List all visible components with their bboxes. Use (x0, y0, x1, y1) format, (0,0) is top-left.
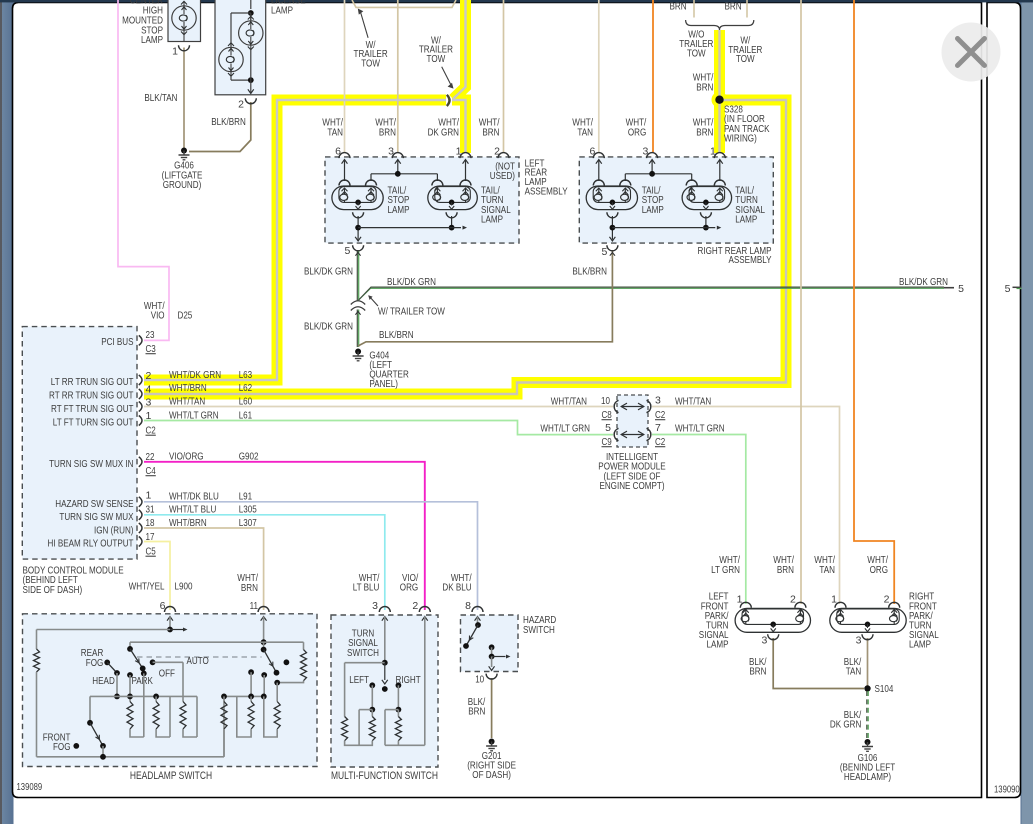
svg-text:5: 5 (344, 245, 350, 257)
svg-text:WHT/YEL: WHT/YEL (129, 580, 165, 592)
CHMSL box (168, 0, 201, 42)
wiper arrow down (384, 663, 386, 680)
pin 3 connector (392, 153, 403, 159)
highlight L63 LT RR TURN SIG wire (yellow) (144, 100, 446, 380)
svg-text:ASSEMBLY: ASSEMBLY (525, 185, 568, 197)
svg-text:WIRING): WIRING) (724, 133, 757, 145)
svg-text:DK GRN: DK GRN (428, 126, 459, 138)
svg-text:TAN: TAN (819, 564, 835, 576)
svg-text:L305: L305 (239, 504, 257, 516)
MFS resistors (371, 710, 373, 717)
svg-text:WHT/LT GRN: WHT/LT GRN (169, 409, 219, 421)
right rear lamp assembly box (579, 157, 773, 243)
ground G201 (489, 739, 495, 745)
svg-text:DK BLU: DK BLU (442, 582, 471, 594)
svg-text:HEADLAMP SWITCH: HEADLAMP SWITCH (130, 770, 212, 782)
lamp CHMSL bulb (172, 6, 196, 30)
svg-text:MULTI-FUNCTION SWITCH: MULTI-FUNCTION SWITCH (331, 770, 438, 782)
pin 1 connector (714, 153, 725, 159)
svg-text:BLK/BRN: BLK/BRN (379, 329, 414, 341)
svg-text:OFF: OFF (159, 668, 175, 680)
feed bus from pin 11 (130, 641, 304, 643)
OFF contact (141, 671, 147, 677)
svg-text:ORG: ORG (870, 564, 888, 576)
svg-text:LAMP: LAMP (481, 214, 503, 226)
page 2 sheet (partial) (987, 3, 1021, 798)
far right resistor (303, 642, 305, 649)
svg-text:3: 3 (856, 634, 862, 646)
svg-text:1: 1 (146, 410, 152, 422)
wire WHT/BRN to left rear lamp pin 3 (397, 0, 399, 152)
LEFT contact (369, 682, 375, 688)
svg-text:ORG: ORG (628, 126, 646, 138)
tie to R1 (345, 662, 385, 664)
wire BLK/DK GRN dashed S104 to G106 (866, 691, 868, 738)
wire WHT/BRN to left rear lamp pin 2 (not used) (503, 0, 505, 152)
svg-text:WHT/BRN: WHT/BRN (169, 517, 207, 529)
svg-text:139089: 139089 (17, 782, 43, 793)
stadium bottom connectors and bus (353, 212, 364, 218)
bus at contacts (117, 695, 170, 697)
pin 5 connector (353, 245, 364, 251)
wire BRN stubs above brace (693, 0, 695, 18)
brace w/o & w/ trailer tow (686, 20, 754, 30)
wire WHT/ORG to right front lamp pin2 (854, 0, 894, 604)
wire BLK/DK GRN from left rear lamp pin 5 to G404 (black+green pair) (356, 250, 358, 301)
svg-text:LAMP: LAMP (909, 639, 931, 651)
svg-text:TAN: TAN (577, 126, 593, 138)
svg-text:WHT/LT GRN: WHT/LT GRN (540, 423, 590, 435)
IPM pass-through row WHT/TAN (614, 400, 618, 412)
highlight L62 RT RR TURN SIG wire (yellow) (144, 100, 786, 394)
svg-text:G902: G902 (239, 451, 259, 463)
wire WHT/TAN to left rear lamp pin 6 (344, 0, 346, 152)
svg-text:18: 18 (146, 517, 155, 529)
svg-text:BRN: BRN (724, 1, 741, 13)
svg-text:SWITCH: SWITCH (523, 624, 555, 636)
svg-text:PANEL): PANEL) (369, 378, 398, 390)
wire WHT/LT BLU L305 BCM to MFS pin3 (144, 515, 385, 610)
ground G106 (865, 739, 871, 745)
svg-text:IGN (RUN): IGN (RUN) (94, 524, 134, 536)
page2 stub wire 5 (1013, 286, 1022, 288)
license lamp internals (250, 0, 252, 9)
svg-text:BLK/BRN: BLK/BRN (211, 116, 246, 128)
pin 3 connector (647, 153, 658, 159)
tail/turn signal lamp stadium (428, 186, 478, 210)
svg-text:GROUND): GROUND) (163, 179, 202, 191)
svg-text:TAN: TAN (846, 666, 862, 678)
svg-text:C9: C9 (602, 436, 612, 448)
svg-text:BLK/DK GRN: BLK/DK GRN (899, 276, 948, 288)
svg-text:LT RR TRUN SIG OUT: LT RR TRUN SIG OUT (51, 376, 134, 388)
svg-text:5: 5 (958, 283, 964, 295)
svg-text:RT RR TRUN SIG OUT: RT RR TRUN SIG OUT (49, 389, 134, 401)
svg-text:ENGINE COMPT): ENGINE COMPT) (599, 480, 664, 492)
svg-text:10: 10 (601, 395, 610, 407)
svg-text:WHT/DK GRN: WHT/DK GRN (169, 369, 221, 381)
svg-text:SWITCH: SWITCH (347, 647, 379, 659)
svg-text:C4: C4 (146, 465, 156, 477)
wire W/ trailer tow bridge at top (352, 0, 456, 7)
svg-text:D25: D25 (178, 310, 193, 322)
arrow from w/trailer tow to yellow wire corner (442, 67, 451, 85)
pin 1 connector (460, 153, 471, 159)
svg-text:RIGHT: RIGHT (396, 674, 422, 686)
svg-text:WHT/LT BLU: WHT/LT BLU (169, 504, 216, 516)
wire BLK/BRN hazard pin10 to G201 (491, 678, 493, 738)
svg-text:PARK: PARK (132, 675, 153, 687)
svg-text:SIDE OF DASH): SIDE OF DASH) (23, 584, 83, 596)
svg-text:TURN SIG SW MUX IN: TURN SIG SW MUX IN (49, 458, 133, 470)
IPM pass-through row WHT/LT GRN (614, 428, 618, 440)
wire WHT/BRN L62 highlighted core (gray) (144, 100, 786, 394)
svg-text:OF DASH): OF DASH) (472, 769, 511, 781)
svg-text:L307: L307 (239, 517, 257, 529)
svg-text:LAMP: LAMP (388, 204, 410, 216)
MFS pin 2 (419, 607, 430, 613)
hazard pin 10 (486, 674, 497, 680)
ground G406 (181, 148, 187, 154)
svg-text:2: 2 (238, 99, 244, 111)
stadium bottom connectors and bus (607, 212, 618, 218)
wire WHT/LT GRN BCM pin1 to IPM pin5 (144, 421, 613, 435)
body control module box (22, 327, 137, 559)
REAR FOG contact (104, 660, 110, 666)
svg-text:1: 1 (146, 490, 152, 502)
svg-text:10: 10 (475, 673, 484, 685)
svg-text:6: 6 (589, 145, 595, 157)
MFS pin 3 (379, 607, 390, 613)
right rotary wiper from pin 11 (263, 642, 265, 649)
wire WHT/YEL L900 BCM to headlamp switch pin6 (144, 542, 170, 611)
wire WHT/TAN IPM pin3 to right front lamp pin1 (652, 407, 840, 605)
right contacts (261, 672, 267, 678)
svg-text:PCI BUS: PCI BUS (101, 336, 133, 348)
svg-text:WHT/TAN: WHT/TAN (169, 395, 205, 407)
svg-text:3: 3 (642, 145, 648, 157)
svg-text:RT FT TRUN SIG OUT: RT FT TRUN SIG OUT (51, 403, 134, 415)
resistor bottom U links (130, 729, 144, 737)
close button (942, 23, 1001, 82)
svg-text:6: 6 (335, 145, 341, 157)
svg-text:FOG: FOG (86, 657, 104, 669)
tail/turn signal lamp stadium (682, 186, 732, 210)
wire BLK/DK GRN branch to page edge pin 5 (358, 288, 944, 301)
svg-text:1: 1 (172, 46, 178, 58)
svg-text:BRN: BRN (749, 666, 766, 678)
svg-text:LT FT TURN SIG OUT: LT FT TURN SIG OUT (53, 416, 134, 428)
wire WHT/BRN L307 BCM to headlamp switch pin11 (144, 528, 264, 610)
svg-text:BLK/TAN: BLK/TAN (144, 92, 177, 104)
ground G404 (355, 349, 361, 355)
svg-text:HAZARD SW SENSE: HAZARD SW SENSE (55, 498, 133, 510)
AUTO dashed line (137, 656, 262, 658)
left front park/turn signal lamp (735, 608, 810, 632)
left stub link (359, 709, 372, 711)
svg-text:LAMP: LAMP (271, 5, 293, 17)
right resistors R4-R6 (221, 702, 227, 730)
tail/stop lamp stadium (586, 186, 637, 210)
svg-text:3: 3 (372, 600, 378, 612)
svg-text:2: 2 (146, 370, 152, 382)
left resistor branch (36, 630, 38, 650)
svg-text:BRN: BRN (468, 706, 485, 718)
svg-text:HEAD: HEAD (92, 675, 115, 687)
svg-text:1: 1 (831, 593, 837, 605)
CHMSL pin 1 connector (179, 45, 190, 51)
headlamp switch pin 6 (165, 607, 176, 613)
svg-text:L900: L900 (175, 580, 193, 592)
HEAD column (116, 673, 118, 696)
hazard pin 8 (472, 607, 483, 613)
right stub link (385, 709, 398, 711)
svg-text:LEFT: LEFT (349, 674, 369, 686)
inline connector half-moon at trailer tow split (447, 95, 450, 106)
svg-text:4: 4 (146, 384, 152, 396)
svg-text:31: 31 (146, 504, 155, 516)
RIGHT contact (396, 682, 402, 688)
svg-text:C3: C3 (146, 343, 156, 355)
svg-text:23: 23 (146, 329, 155, 341)
svg-text:L91: L91 (239, 491, 253, 503)
wire BLK/BRN branch from G404 to right rear lamp pin 5 (358, 250, 612, 346)
svg-text:TOW: TOW (736, 53, 755, 65)
BCM pin stubs and rows (139, 335, 142, 345)
svg-text:3: 3 (761, 634, 767, 646)
headlamp switch box (23, 614, 318, 767)
splice S328 (715, 96, 723, 104)
svg-text:8: 8 (465, 600, 471, 612)
license lamp box (215, 0, 266, 95)
arrow to trailer tow connector (369, 296, 378, 306)
svg-text:AUTO: AUTO (187, 655, 209, 667)
svg-text:BRN: BRN (777, 564, 794, 576)
hazard switch box (461, 615, 519, 672)
svg-text:5: 5 (1005, 283, 1011, 295)
wire BLK/BRN from license lamp to G406 (189, 102, 251, 152)
svg-text:5: 5 (605, 422, 611, 434)
wire VIO/ORG G902 BCM pin22 to MFS pin2 (144, 462, 425, 610)
svg-text:TURN SIG SW MUX: TURN SIG SW MUX (59, 511, 133, 523)
left rear lamp assembly box (325, 157, 519, 243)
svg-text:BRN: BRN (482, 126, 499, 138)
svg-text:22: 22 (146, 451, 155, 463)
right front park/turn signal lamp (830, 608, 906, 632)
svg-text:WHT/BRN: WHT/BRN (169, 382, 207, 394)
svg-text:C2: C2 (655, 436, 665, 448)
right resistor bottom U links (223, 729, 225, 757)
wire WHT/TAN to right rear lamp pin 6 (598, 0, 600, 152)
svg-text:S104: S104 (875, 683, 894, 695)
svg-text:1: 1 (710, 145, 716, 157)
svg-text:C8: C8 (602, 409, 612, 421)
inline connector w/trailer tow on green wire (351, 301, 365, 305)
pin 2 connector (not used) (498, 153, 509, 159)
license pin 2 connector (245, 98, 256, 103)
svg-text:LAMP: LAMP (141, 34, 163, 46)
svg-text:11: 11 (250, 600, 259, 612)
svg-text:BLK/DK GRN: BLK/DK GRN (387, 276, 436, 288)
svg-text:LAMP: LAMP (642, 204, 664, 216)
svg-text:TOW: TOW (427, 53, 446, 65)
svg-text:2: 2 (790, 593, 796, 605)
svg-text:BLK/BRN: BLK/BRN (572, 265, 607, 277)
svg-text:FOG: FOG (53, 741, 71, 753)
MFS bottom buses (345, 741, 373, 746)
wire BLK/BRN left front lamp pin3 to S104 (773, 638, 864, 689)
svg-text:BRN: BRN (696, 126, 713, 138)
svg-text:HI BEAM RLY OUTPUT: HI BEAM RLY OUTPUT (48, 538, 134, 550)
svg-text:17: 17 (146, 531, 155, 543)
svg-text:L60: L60 (239, 395, 253, 407)
PARK column (127, 672, 133, 678)
svg-text:L63: L63 (239, 369, 253, 381)
svg-text:3: 3 (146, 397, 152, 409)
svg-text:139090: 139090 (994, 785, 1020, 796)
svg-text:ORG: ORG (400, 582, 418, 594)
svg-text:LAMP: LAMP (735, 214, 757, 226)
svg-text:L62: L62 (239, 382, 253, 394)
headlamp switch pin 11 (258, 607, 269, 613)
svg-text:TOW: TOW (361, 57, 380, 69)
wire WHT/LT GRN IPM pin7 to left front lamp pin1 (652, 435, 746, 605)
splice S104 (864, 685, 870, 691)
svg-text:LAMP: LAMP (707, 639, 729, 651)
svg-text:WHT/LT GRN: WHT/LT GRN (675, 423, 725, 435)
tail/stop lamp stadium (332, 186, 383, 210)
svg-text:BLK/DK GRN: BLK/DK GRN (304, 320, 353, 332)
AUTO contact (150, 659, 156, 665)
svg-text:C5: C5 (146, 546, 156, 558)
resistors R1-R3 (127, 702, 133, 730)
svg-text:BRN: BRN (696, 81, 713, 93)
FRONT FOG switch (90, 695, 117, 697)
svg-text:LT GRN: LT GRN (711, 564, 740, 576)
svg-text:LT BLU: LT BLU (353, 582, 380, 594)
svg-text:VIO: VIO (151, 310, 165, 322)
pin3 internal tie line (371, 173, 437, 175)
svg-text:BRN: BRN (379, 126, 396, 138)
svg-text:WHT/TAN: WHT/TAN (551, 396, 587, 408)
hazard right contact chain (489, 644, 495, 650)
right bus (224, 695, 264, 697)
svg-text:ASSEMBLY: ASSEMBLY (729, 254, 772, 266)
svg-text:HEADLAMP): HEADLAMP) (844, 771, 891, 783)
left rotary wiper (129, 642, 131, 649)
svg-text:USED): USED) (490, 170, 515, 182)
svg-text:BRN: BRN (669, 1, 686, 13)
pin3 internal tie line (625, 173, 691, 175)
svg-text:L61: L61 (239, 409, 253, 421)
svg-text:C2: C2 (146, 425, 156, 437)
wire WHT/BRN to left front lamp pin2 (800, 0, 802, 604)
wire WHT/DK BLU L91 BCM to hazard pin8 (144, 502, 478, 610)
svg-text:3: 3 (655, 395, 661, 407)
svg-text:C2: C2 (655, 409, 665, 421)
svg-text:DK GRN: DK GRN (830, 719, 861, 731)
svg-text:WHT/TAN: WHT/TAN (675, 396, 711, 408)
svg-text:W/ TRAILER TOW: W/ TRAILER TOW (378, 306, 445, 318)
wire WHT/VIO D25 (pink) to BCM pin 23 (118, 0, 169, 340)
pin 5 connector (607, 245, 618, 251)
wire WHT/TAN BCM pin3 to IPM pin10 (144, 406, 613, 408)
svg-text:7: 7 (655, 422, 661, 434)
svg-text:1: 1 (456, 145, 462, 157)
svg-text:6: 6 (160, 600, 166, 612)
svg-text:TOW: TOW (687, 48, 706, 60)
pin 6 connector (593, 153, 604, 159)
svg-text:1: 1 (737, 593, 743, 605)
multi-function switch box (331, 615, 438, 767)
svg-text:5: 5 (601, 246, 607, 258)
wire BLK/TAN right front lamp pin3 to S104 (867, 638, 869, 689)
svg-text:VIO/ORG: VIO/ORG (169, 451, 204, 463)
svg-text:BRN: BRN (241, 582, 258, 594)
svg-text:2: 2 (884, 593, 890, 605)
svg-text:WHT/DK BLU: WHT/DK BLU (169, 491, 219, 503)
pin 6 connector (339, 153, 350, 159)
svg-text:2: 2 (494, 145, 500, 157)
wire BLK/TAN from CHMSL to G406 (183, 48, 185, 149)
svg-text:BLK/DK GRN: BLK/DK GRN (304, 265, 353, 277)
svg-text:TAN: TAN (327, 126, 343, 138)
intelligent power module box (617, 395, 648, 447)
svg-text:2: 2 (412, 600, 418, 612)
bottom bus (37, 756, 225, 758)
wire WHT/ORG to right rear lamp pin 3 (652, 0, 654, 152)
svg-text:3: 3 (388, 145, 394, 157)
arrow from w/trailer tow to bridge (361, 12, 369, 38)
wire WHT/DK GRN highlighted core (gray) (144, 100, 446, 380)
